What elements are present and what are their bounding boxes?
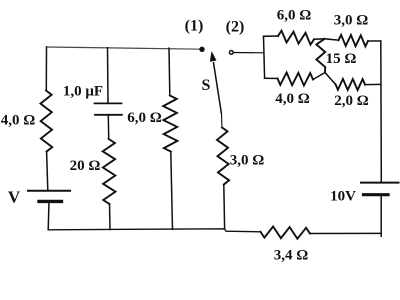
battery V positive plate — [28, 190, 70, 192]
resistor R3 6,0 Ohm (middle branch) — [163, 96, 177, 152]
wire bridge bottom-left to R8 — [265, 77, 278, 79]
wire bottom rail left — [48, 229, 260, 232]
resistor R10 3,4 Ohm (bottom) — [261, 227, 311, 239]
wire R5 to node A — [314, 38, 325, 41]
svg-text:3,0 Ω: 3,0 Ω — [230, 153, 265, 169]
resistor R6 3,0 Ohm (bridge top-right) — [339, 35, 369, 47]
svg-text:20 Ω: 20 Ω — [70, 158, 101, 174]
resistor R1 4,0 Ohm (left branch) — [41, 91, 53, 152]
switch contact node (2) — [229, 51, 233, 55]
wire R3 to bottom rail — [171, 152, 173, 230]
resistor R9 2,0 Ohm (bridge bottom-right) — [336, 79, 366, 90]
capacitor C1 top plate — [95, 102, 122, 104]
svg-text:4,0 Ω: 4,0 Ω — [1, 113, 36, 129]
switch contact node (1) — [199, 47, 204, 52]
svg-text:1,0 μF: 1,0 μF — [63, 84, 103, 100]
wire R4 to bottom rail — [223, 185, 226, 229]
wire top rail to R3 — [168, 48, 171, 95]
svg-text:3,0 Ω: 3,0 Ω — [334, 13, 369, 29]
wire R8 to node B — [313, 73, 325, 80]
wire left branch down — [45, 47, 47, 91]
wire battery V to bottom — [47, 201, 50, 229]
wire top horizontal — [47, 47, 202, 49]
wire R1 to battery V — [47, 152, 48, 191]
svg-text:6,0 Ω: 6,0 Ω — [127, 110, 162, 126]
svg-text:V: V — [8, 188, 21, 207]
svg-text:(1): (1) — [185, 18, 204, 35]
svg-text:6,0 Ω: 6,0 Ω — [277, 8, 312, 24]
wire C1 to R2 — [107, 115, 109, 139]
wire contact (2) to bridge — [233, 52, 264, 54]
wire right rail to 10V battery — [380, 41, 383, 182]
wire switch arm to R4 — [221, 114, 224, 128]
svg-text:2,0 Ω: 2,0 Ω — [334, 93, 369, 109]
svg-text:10V: 10V — [330, 189, 356, 205]
wire bridge to R5 — [264, 35, 279, 37]
battery 10V positive plate — [361, 182, 399, 184]
wire node B to R9 — [325, 73, 336, 85]
resistor R4 3,0 Ohm (switch branch) — [217, 128, 229, 185]
svg-text:S: S — [202, 77, 211, 94]
wire 10V battery to bottom corner — [380, 195, 382, 237]
svg-text:3,4 Ω: 3,4 Ω — [274, 248, 309, 264]
wire node A to R6 — [325, 39, 339, 40]
wire bottom rail right — [310, 232, 381, 234]
resistor R5 6,0 Ohm (bridge top-left) — [278, 31, 314, 45]
svg-text:15 Ω: 15 Ω — [326, 51, 357, 67]
wire R2 to bottom rail — [109, 204, 112, 230]
svg-text:4,0 Ω: 4,0 Ω — [275, 91, 310, 107]
resistor R7 15 Ohm (bridge middle) — [316, 39, 325, 73]
wire R6 to right rail — [368, 40, 381, 42]
wire bridge left vertical — [264, 36, 265, 78]
switch S arrowhead — [210, 52, 216, 61]
svg-text:(2): (2) — [226, 19, 245, 36]
capacitor C1 bottom plate — [95, 114, 122, 116]
switch S arm — [213, 62, 221, 114]
resistor R2 20 Ohm — [103, 139, 116, 204]
wire top rail to capacitor C1 — [107, 48, 110, 103]
wire R9 to right rail — [365, 83, 381, 85]
battery 10V negative plate — [364, 193, 389, 196]
resistor R8 4,0 Ohm (bridge bottom-left) — [278, 73, 314, 86]
battery V negative plate — [39, 200, 62, 203]
